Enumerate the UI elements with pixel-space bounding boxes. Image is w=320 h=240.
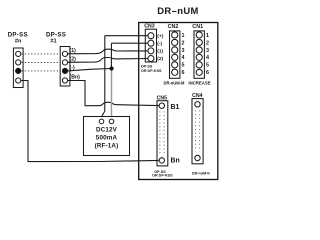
svg-text:DR–nUM: DR–nUM — [157, 5, 198, 16]
svg-text:2: 2 — [206, 40, 209, 46]
svg-text:6: 6 — [182, 70, 185, 76]
svg-text:3: 3 — [182, 48, 185, 54]
svg-text:5: 5 — [182, 63, 185, 69]
svg-text:DP-SS: DP-SS — [46, 31, 66, 38]
svg-text:INCREASE: INCREASE — [188, 80, 210, 85]
svg-text:(2): (2) — [70, 56, 77, 62]
svg-text:OR DP-KSS: OR DP-KSS — [152, 174, 173, 178]
svg-text:1: 1 — [182, 33, 185, 39]
svg-text:(1): (1) — [157, 49, 163, 55]
svg-text:2: 2 — [182, 40, 185, 46]
svg-text:#1: #1 — [50, 39, 56, 45]
svg-text:(RF-1A): (RF-1A) — [95, 143, 119, 150]
svg-text:CN3: CN3 — [144, 23, 154, 29]
svg-text:(+): (+) — [157, 33, 163, 39]
svg-text:(1): (1) — [70, 48, 77, 54]
svg-text:DP-SS: DP-SS — [8, 31, 28, 38]
svg-text:CN2: CN2 — [168, 24, 179, 30]
svg-text:3: 3 — [206, 48, 209, 54]
svg-text:Bn: Bn — [171, 158, 180, 165]
svg-text:6: 6 — [206, 70, 209, 76]
svg-text:DR-nUM-M: DR-nUM-M — [164, 80, 186, 85]
svg-text:#n: #n — [15, 39, 22, 45]
svg-text:4: 4 — [206, 55, 209, 61]
svg-text:4: 4 — [182, 55, 185, 61]
svg-text:500mA: 500mA — [96, 135, 118, 142]
svg-text:5: 5 — [206, 63, 209, 69]
svg-text:CN1: CN1 — [192, 24, 203, 30]
svg-text:(Bn): (Bn) — [70, 75, 81, 81]
svg-text:OR DP-KSS: OR DP-KSS — [141, 69, 162, 73]
svg-text:(2): (2) — [157, 56, 163, 62]
svg-text:B1: B1 — [171, 104, 180, 111]
svg-text:1: 1 — [206, 33, 209, 39]
svg-text:DR-nUM-K: DR-nUM-K — [192, 171, 210, 175]
svg-text:DC12V: DC12V — [96, 127, 118, 134]
svg-text:DP-SS: DP-SS — [141, 64, 153, 68]
svg-text:(-): (-) — [157, 41, 162, 47]
